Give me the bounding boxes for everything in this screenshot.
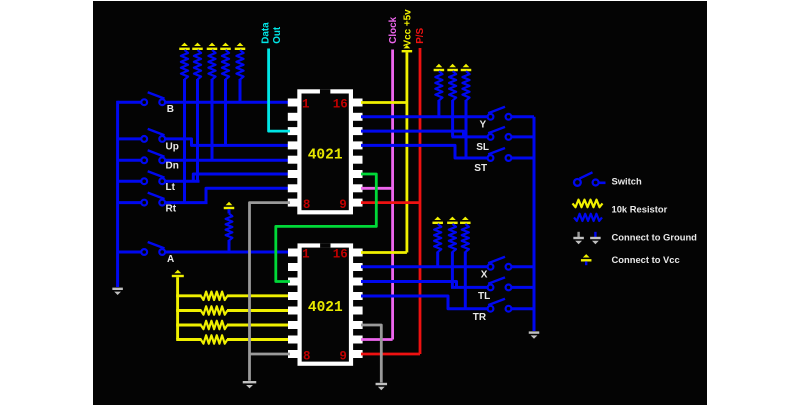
switch A <box>141 242 165 255</box>
legend label Switch <box>612 176 642 187</box>
wire U2 pin 15 to switch X <box>361 265 488 268</box>
legend yellow resistor icon <box>573 200 603 208</box>
svg-text:Lt: Lt <box>166 182 176 193</box>
svg-text:Clock: Clock <box>388 16 399 43</box>
wire P/S to U2 pin 9 <box>361 353 420 356</box>
svg-text:Connect to Ground: Connect to Ground <box>612 232 698 243</box>
svg-text:Y: Y <box>480 119 487 130</box>
Vcc symbol (R11) <box>447 217 458 224</box>
svg-text:P/S: P/S <box>415 27 426 43</box>
wire left bus vertical <box>116 101 119 287</box>
Vcc symbol (supply) <box>402 45 413 52</box>
svg-text:1: 1 <box>302 98 310 112</box>
wire Vcc to U2 pin 16 <box>361 251 407 254</box>
10k resistor R1 <box>181 50 188 203</box>
shift register U2 4021 body <box>298 243 354 365</box>
switch SL <box>488 127 512 140</box>
wire Lt row <box>165 180 200 183</box>
10k resistor R11 <box>449 224 456 287</box>
wire switch Y to bus <box>511 115 534 118</box>
shift register U2 4021 pin stubs <box>288 249 363 359</box>
10k resistor R10 <box>434 224 441 267</box>
label Dn <box>166 160 179 171</box>
svg-text:Out: Out <box>272 26 283 44</box>
svg-text:16: 16 <box>333 248 348 262</box>
svg-text:Dn: Dn <box>166 160 179 171</box>
switch X <box>488 257 512 270</box>
svg-text:Data: Data <box>260 22 271 44</box>
svg-text:4021: 4021 <box>308 147 343 163</box>
label ST <box>474 163 487 174</box>
Vcc symbol (yellow block) <box>172 270 184 277</box>
switch Lt <box>141 171 165 184</box>
wire bus to switch B <box>118 101 142 104</box>
label Clock <box>388 16 399 43</box>
svg-text:Connect to Vcc: Connect to Vcc <box>612 254 680 265</box>
label A <box>167 254 174 265</box>
wire U2 pin 13 jog to switch TR <box>361 296 488 309</box>
svg-text:8: 8 <box>303 350 311 364</box>
switch TR <box>488 299 512 312</box>
wire bus to switch Rt <box>118 201 142 204</box>
svg-text:SL: SL <box>476 142 489 153</box>
svg-text:8: 8 <box>303 198 311 212</box>
10k resistor R2 <box>194 50 201 181</box>
shift register U1 4021 body <box>297 89 353 214</box>
svg-text:Vcc +5v: Vcc +5v <box>402 9 413 47</box>
wire Data Out to pin 3 <box>269 49 290 132</box>
svg-text:TR: TR <box>473 312 487 323</box>
wire bus to switch Dn <box>118 159 142 162</box>
10k resistor R4 <box>222 50 229 145</box>
10k resistor R3 <box>208 50 215 160</box>
legend label Connect to Vcc <box>612 254 680 265</box>
switch ST <box>488 148 512 161</box>
wire Clock to U2 pin 10 <box>361 338 393 341</box>
Vcc symbol (R12) <box>460 217 471 224</box>
shift register U2 4021 pin numbers <box>302 248 348 364</box>
svg-text:B: B <box>167 104 174 115</box>
wire yellow Vcc stem <box>176 277 179 339</box>
legend switch icon <box>574 172 606 186</box>
wire Vcc to U1 pin 16 <box>361 101 407 104</box>
wire P/S vertical <box>419 48 422 354</box>
Vcc symbol (R2) <box>192 43 203 50</box>
10k resistor R8 <box>449 71 456 137</box>
10k resistor RY3 <box>176 321 290 329</box>
switch Rt <box>141 193 165 206</box>
switch TL <box>488 277 512 290</box>
wire Up row jog to pin 4 <box>165 139 290 146</box>
legend label 10k Resistor <box>612 204 668 215</box>
label B <box>167 104 174 115</box>
10k resistor RY1 <box>176 292 290 300</box>
10k resistor R12 <box>462 224 469 309</box>
switch Up <box>141 129 165 142</box>
ground (left bus) <box>112 288 123 295</box>
svg-text:Switch: Switch <box>612 176 642 187</box>
legend blue resistor icon <box>574 214 602 221</box>
svg-text:9: 9 <box>339 198 347 212</box>
Vcc symbol (R4) <box>220 43 231 50</box>
10k resistor R7 <box>435 71 442 117</box>
Vcc symbol (R9) <box>461 64 472 71</box>
wire switch SL to bus <box>511 135 534 138</box>
shift register U1 4021 pin numbers <box>302 98 348 213</box>
wire Dn row to pin 5 <box>165 159 290 162</box>
wire right ground bus <box>533 117 536 331</box>
label Vcc +5v <box>402 9 413 47</box>
wire switch ST to bus <box>511 157 534 160</box>
label X <box>481 269 488 280</box>
svg-text:10k Resistor: 10k Resistor <box>612 204 668 215</box>
label Data Out <box>260 22 282 44</box>
label TL <box>478 291 490 302</box>
wire U1 pin 8 ground (gray) <box>250 203 291 381</box>
switch Dn <box>141 150 165 163</box>
wire bus to switch Up <box>118 137 142 140</box>
wire switch TL to bus <box>511 286 534 289</box>
label SL <box>476 142 489 153</box>
label Up <box>166 141 179 152</box>
wire U1 pin 14 jog to switch SL <box>361 131 488 137</box>
svg-text:X: X <box>481 269 488 280</box>
shift register U2 4021 part number <box>308 300 343 316</box>
legend ground icon (blue) <box>590 232 601 244</box>
shift register U1 4021 pin stubs <box>288 99 363 207</box>
Vcc symbol (R3) <box>207 43 218 50</box>
svg-text:Up: Up <box>166 141 179 152</box>
wire B row to pin 1 <box>165 101 290 104</box>
svg-text:ST: ST <box>474 163 487 174</box>
wire U1 pin 13 jog to switch ST <box>361 145 488 158</box>
wire Rt row <box>165 201 208 204</box>
Vcc symbol (R6) <box>224 202 235 209</box>
wire Clock to U1 pin 10 <box>361 187 393 190</box>
svg-text:1: 1 <box>302 248 310 262</box>
ground (right bus) <box>529 331 540 338</box>
label Y <box>480 119 487 130</box>
10k resistor R6 <box>226 209 233 252</box>
label TR <box>473 312 487 323</box>
wire U2 pin 8 ground (gray) <box>250 353 291 356</box>
label Lt <box>166 182 176 193</box>
legend label Connect to Ground <box>612 232 698 243</box>
wire bus to switch A <box>118 251 142 254</box>
wire U1 pin 11 to U2 pin 3 (green) <box>276 174 377 282</box>
wire Vcc vertical <box>405 52 408 252</box>
wire P/S to U1 pin 9 <box>361 201 420 204</box>
wire Rt jog to pin 7 <box>206 188 290 202</box>
svg-text:TL: TL <box>478 291 490 302</box>
Vcc symbol (R5) <box>235 43 246 50</box>
label P/S <box>415 27 426 43</box>
10k resistor RY4 <box>176 335 290 343</box>
wire switch TR to bus <box>511 307 534 310</box>
background panel <box>93 1 707 405</box>
svg-text:A: A <box>167 254 174 265</box>
ground (chip2 right) <box>376 383 388 390</box>
wire U2 pin 11 ground (gray) <box>361 325 381 383</box>
switch B <box>141 92 165 105</box>
10k resistor RY2 <box>176 306 290 314</box>
label Rt <box>166 204 177 215</box>
Vcc symbol (R8) <box>447 64 458 71</box>
10k resistor R5 <box>236 50 243 102</box>
switch Y <box>488 107 512 120</box>
wire U1 pin 15 to switch Y <box>361 115 488 118</box>
legend ground icon (gray) <box>573 232 584 244</box>
shift register U1 4021 part number <box>308 147 343 163</box>
10k resistor R9 <box>462 71 469 158</box>
Vcc symbol (R7) <box>434 64 445 71</box>
svg-text:4021: 4021 <box>308 300 343 316</box>
Vcc symbol (R1) <box>179 43 190 50</box>
wire bus to switch Lt <box>118 180 142 183</box>
ground (chips left) <box>243 381 257 388</box>
wire U2 pin 14 jog to switch TL <box>361 282 488 288</box>
svg-text:16: 16 <box>333 98 348 112</box>
wire switch X to bus <box>511 265 534 268</box>
wire A row to chip2 pin 1 <box>165 251 290 254</box>
legend vcc icon <box>581 254 592 265</box>
svg-text:9: 9 <box>339 350 347 364</box>
svg-text:Rt: Rt <box>166 204 177 215</box>
Vcc symbol (R10) <box>432 217 443 224</box>
wire Lt jog to pin 6 <box>193 174 290 181</box>
wire Clock vertical <box>391 50 394 340</box>
